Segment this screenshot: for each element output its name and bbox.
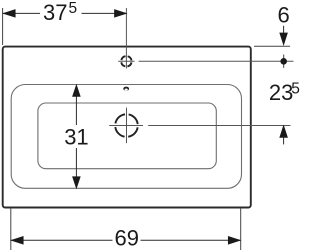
- dim 23.5 up arrow: [280, 126, 288, 138]
- dim 69 dimension line right segment: [141, 239, 241, 241]
- svg-text:23: 23: [269, 80, 293, 105]
- svg-text:5: 5: [291, 80, 300, 97]
- tap hole circle: [121, 56, 131, 66]
- dim 31 down arrow: [73, 177, 81, 188]
- drain circle: [115, 114, 138, 137]
- svg-text:5: 5: [69, 0, 78, 17]
- dim 31 up arrow: [73, 85, 81, 96]
- dim 6 dimension line: [283, 26, 285, 36]
- dim 69 right extension line: [240, 208, 242, 250]
- tap hole centerline to right: [139, 60, 294, 62]
- dim 37.5 dimension line right segment: [82, 12, 127, 14]
- dim 69 dimension line left segment: [11, 239, 113, 241]
- dim 37.5 left arrow: [3, 10, 15, 18]
- overflow hole: [123, 87, 129, 91]
- bowl outline: [38, 103, 216, 169]
- dim 6 down arrow: [280, 33, 288, 45]
- drain centerline to right: [148, 125, 290, 127]
- basin outer outline: [3, 47, 251, 208]
- drain crosshair horizontal: [109, 125, 143, 127]
- svg-text:37: 37: [43, 0, 67, 25]
- dim 69 right arrow: [228, 237, 240, 245]
- dim 37.5 right arrow: [115, 10, 127, 18]
- dim 31 dimension line lower segment: [75, 148, 77, 187]
- dim 37.5 dimension line left segment: [3, 12, 40, 14]
- svg-text:31: 31: [64, 124, 88, 149]
- dim 31 dimension line upper segment: [75, 86, 77, 125]
- basin inner deck outline: [11, 85, 241, 189]
- dim 23.5 arrow tail: [283, 136, 285, 144]
- dim 69 left extension line: [10, 208, 12, 250]
- svg-text:69: 69: [115, 226, 139, 250]
- svg-text:6: 6: [277, 2, 289, 27]
- drain crosshair vertical: [126, 108, 128, 144]
- dim 6 extension line at basin top edge: [254, 45, 290, 47]
- dim 23.5 dot terminator: [280, 58, 287, 65]
- dim 37.5 left extension line: [2, 8, 4, 45]
- dim 23.5 tick through dot: [283, 55, 285, 68]
- tap hole crosshair horizontal: [118, 60, 134, 62]
- dim 69 left arrow: [11, 237, 23, 245]
- tap hole centerline vertical: [125, 8, 127, 69]
